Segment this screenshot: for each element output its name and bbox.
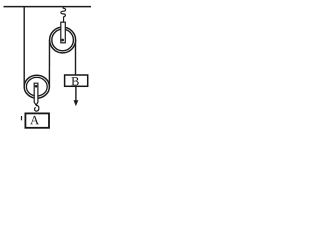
- hook between movable pulley and block A: [35, 105, 39, 111]
- yoke of movable pulley (tapered bottom): [34, 83, 38, 105]
- pulley fixed: inner wheel: [52, 29, 74, 51]
- pulley movable: outer wheel: [24, 75, 49, 98]
- block B: [65, 75, 88, 86]
- tick mark left of block A: [21, 116, 23, 120]
- arrow below block B: [75, 87, 77, 101]
- ceiling: [4, 6, 92, 8]
- wire: rope fixed pulley left side down to movable pulley right side: [48, 40, 50, 87]
- yoke of fixed pulley: [61, 22, 66, 43]
- label A: [30, 116, 39, 124]
- hanger hook (S-hook) below ceiling: [61, 7, 66, 22]
- block A: [25, 113, 49, 127]
- axle dot movable pulley: [35, 85, 38, 88]
- wire: left rope from ceiling to movable pulley: [23, 7, 25, 87]
- arrowhead: [74, 100, 79, 106]
- pulley movable: inner wheel: [26, 77, 47, 96]
- wire: rope fixed pulley right side down to block B: [75, 40, 77, 75]
- axle dot fixed pulley: [61, 39, 64, 42]
- pulley fixed: outer wheel: [50, 27, 76, 53]
- label B: [71, 77, 78, 85]
